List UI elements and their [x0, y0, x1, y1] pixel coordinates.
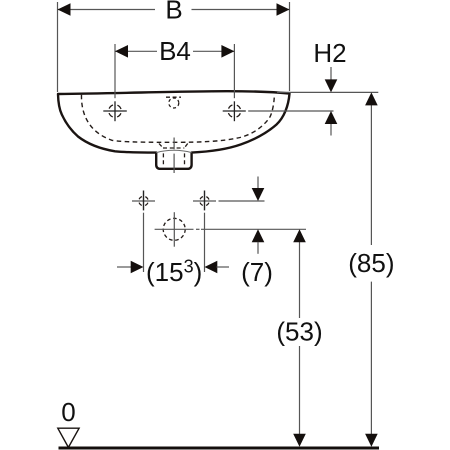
drain recess dashed trapezoid [159, 144, 188, 149]
dimension B4 line [115, 50, 234, 52]
svg-text:B4: B4 [159, 36, 191, 66]
datum triangle [58, 428, 79, 447]
(53) bottom arrow (down) [293, 434, 306, 447]
dimension B extension line left [57, 2, 59, 92]
dimension B4 extension line left [114, 44, 116, 98]
siphon dashed circle [163, 218, 185, 240]
floor line [59, 446, 380, 449]
dimension (15^3) left arrow [117, 266, 132, 268]
(7) up arrow [252, 229, 265, 242]
right fixing hole extension line [204, 213, 206, 272]
dimension (85) line [370, 105, 372, 435]
drain centre line [173, 138, 175, 174]
siphon vertical centre line [173, 212, 175, 247]
dimension B arrow left [58, 3, 71, 16]
rim underside reference line [248, 110, 333, 112]
(7) down arrow [257, 177, 259, 190]
dimension (15^3) right arrow [205, 261, 218, 274]
left fixing hole crosshair [132, 191, 155, 211]
dimension B extension line right [289, 2, 291, 91]
(85) bottom arrow (down) [365, 434, 378, 447]
H2 lower arrow (up) [325, 111, 338, 124]
dimension B arrow right [277, 3, 290, 16]
svg-text:(7): (7) [241, 257, 273, 287]
dimension B4 extension line right [233, 44, 235, 98]
right tap hole crosshair [223, 105, 246, 118]
inner bowl dashed contour [81, 94, 274, 142]
(85) top arrow (up) [365, 92, 378, 105]
svg-text:(153): (153) [146, 257, 202, 288]
dimension B line [58, 9, 290, 11]
svg-text:0: 0 [61, 397, 75, 427]
dimension (53) line [299, 242, 301, 435]
drain recess front rim (thin arc) [156, 150, 191, 152]
overflow slot dashed line [166, 96, 181, 98]
svg-text:(53): (53) [276, 317, 322, 347]
rim top reference line [277, 91, 378, 93]
svg-text:B: B [165, 0, 182, 25]
washbasin outline [58, 91, 290, 169]
dimension B4 arrow left [115, 45, 128, 58]
right fixing hole crosshair [193, 191, 216, 211]
left tap hole crosshair [103, 105, 127, 118]
dimension B4 arrow right [221, 45, 234, 58]
svg-text:(85): (85) [348, 248, 394, 278]
overflow dashed circle [169, 98, 179, 108]
left fixing hole extension line [143, 213, 145, 272]
drain tailpiece inner dashed walls [163, 153, 184, 166]
fixing hole reference line to (7) [219, 200, 265, 202]
svg-text:H2: H2 [313, 38, 346, 68]
siphon horizontal centre line / reference to (53) [155, 228, 306, 230]
(53) top arrow (up) [293, 229, 306, 242]
H2 upper arrow (down) [330, 67, 332, 80]
